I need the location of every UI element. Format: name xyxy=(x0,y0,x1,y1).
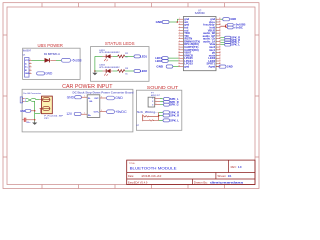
svg-text:IN-: IN- xyxy=(88,98,91,100)
car connector pins xyxy=(23,98,25,100)
svg-text:dimicmandana: dimicmandana xyxy=(210,181,244,185)
IC U2 body xyxy=(183,17,216,71)
car connector body xyxy=(20,97,22,103)
svg-text:2: 2 xyxy=(84,113,85,115)
net flag GND (buck out) xyxy=(107,96,115,100)
svg-text:WTL-RGB-0302URC: WTL-RGB-0302URC xyxy=(99,52,120,54)
wires X crossing xyxy=(26,98,28,100)
svg-text:+5vDC: +5vDC xyxy=(234,26,243,29)
fuse pack PR1 xyxy=(42,96,53,114)
wire LED2 to R2 xyxy=(110,70,112,72)
net flag +5vUSB (USB) xyxy=(61,58,70,62)
svg-text:LED2: LED2 xyxy=(140,69,147,73)
wire GND flag to buck pin 1 xyxy=(81,96,87,98)
speaker net flags xyxy=(220,37,224,39)
svg-text:GND: GND xyxy=(67,95,75,99)
title block row dividers xyxy=(127,172,255,174)
svg-text:1.0: 1.0 xyxy=(238,165,242,169)
svg-text:3: 3 xyxy=(101,96,102,98)
svg-text:1/1: 1/1 xyxy=(228,174,232,178)
svg-text:SPK_L: SPK_L xyxy=(231,43,240,47)
IC U2 right pins xyxy=(216,18,220,20)
wire 12V flag to buck pin 2 xyxy=(81,113,87,115)
svg-text:21: 21 xyxy=(219,60,221,62)
wires audio to flags xyxy=(160,97,164,100)
LED2 xyxy=(105,69,107,73)
wire GND to U2 pins 1-2 xyxy=(169,21,177,23)
audio connector body xyxy=(148,97,155,107)
svg-text:25: 25 xyxy=(219,49,221,51)
svg-text:MiniUSB-4F: MiniUSB-4F xyxy=(23,49,31,52)
frame column ticks top xyxy=(41,3,43,7)
svg-text:D1 BZT52C-A: D1 BZT52C-A xyxy=(44,53,60,56)
wire X to fuse xyxy=(32,98,36,100)
wire diode to +5vUSB flag xyxy=(50,59,56,61)
svg-text:BLUETOOTH MODULE: BLUETOOTH MODULE xyxy=(130,165,177,170)
net flag GND (U2 bottom-right) xyxy=(219,65,226,68)
junction dot bus xyxy=(94,70,96,72)
svg-text:28: 28 xyxy=(219,40,221,42)
ground symbol car xyxy=(32,123,37,125)
svg-text:GND: GND xyxy=(115,96,123,100)
svg-text:1: 1 xyxy=(152,98,153,100)
svg-text:12: 12 xyxy=(178,49,180,51)
jumper part body xyxy=(142,115,144,122)
svg-text:GND: GND xyxy=(156,65,164,69)
section box UBS POWER xyxy=(23,48,81,79)
wire R1 to flag xyxy=(125,55,134,57)
title block column dividers xyxy=(228,160,230,172)
net flags sound out bottom xyxy=(163,111,170,114)
svg-text:35: 35 xyxy=(219,21,221,23)
svg-text:2: 2 xyxy=(30,62,31,64)
audio connector pins xyxy=(155,97,160,99)
svg-text:32: 32 xyxy=(219,29,221,31)
sheet inner border xyxy=(7,7,255,185)
frame row ticks right xyxy=(255,34,259,36)
svg-text:SPK_R: SPK_R xyxy=(170,114,180,118)
wire LED1 to R1 xyxy=(110,55,112,57)
svg-text:4: 4 xyxy=(30,69,31,71)
wire GND to U2 bottom-left xyxy=(173,66,179,68)
svg-text:2: 2 xyxy=(25,101,26,103)
svg-text:3: 3 xyxy=(30,66,31,68)
IC U2 left pins xyxy=(179,18,184,20)
svg-text:16: 16 xyxy=(178,60,180,62)
svg-text:WTL-RGB-0302URC: WTL-RGB-0302URC xyxy=(99,67,120,69)
svg-text:1: 1 xyxy=(30,59,31,61)
svg-text:5: 5 xyxy=(30,72,31,74)
net flag GND (U2 top-right) xyxy=(223,18,230,21)
svg-text:18: 18 xyxy=(178,65,180,67)
svg-text:OUT+: OUT+ xyxy=(94,111,100,113)
net flag LED2 (status) xyxy=(134,70,140,73)
wire gnd bus vertical xyxy=(32,100,35,102)
capacitor C1 xyxy=(22,119,24,121)
wire LED1 to U2 xyxy=(168,57,178,59)
svg-text:GND: GND xyxy=(25,73,30,75)
svg-text:24: 24 xyxy=(219,51,221,53)
net flag GND (USB) xyxy=(37,72,45,75)
LED1 xyxy=(105,55,107,59)
wire fuse return xyxy=(35,112,41,114)
svg-text:GND: GND xyxy=(230,17,236,21)
svg-text:100n: 100n xyxy=(26,122,31,124)
connector U1 pins xyxy=(29,59,32,61)
svg-text:LED2: LED2 xyxy=(155,59,162,63)
svg-text:+5vUSB: +5vUSB xyxy=(71,59,82,63)
gnd bus wire xyxy=(94,56,96,71)
svg-text:PR?: PR? xyxy=(44,118,49,120)
net flag +5vDC (buck out) xyxy=(107,110,115,114)
diode D1 xyxy=(45,58,50,62)
svg-text:13: 13 xyxy=(178,51,180,53)
svg-text:STATUS LEDS: STATUS LEDS xyxy=(105,41,135,46)
net flag +5vUSB (U2) xyxy=(227,23,233,26)
svg-text:D-: D- xyxy=(25,63,27,65)
section box CAR POWER INPUT xyxy=(22,89,133,132)
svg-text:33: 33 xyxy=(219,26,221,28)
svg-text:2018-04-22: 2018-04-22 xyxy=(141,174,162,178)
svg-text:Drawn By:: Drawn By: xyxy=(194,182,208,185)
svg-text:VCC: VCC xyxy=(25,60,30,62)
wire U2 to GND bottom-right xyxy=(216,66,219,68)
svg-text:SAB009: SAB009 xyxy=(195,12,206,15)
svg-text:34: 34 xyxy=(219,24,221,26)
svg-text:OUT-: OUT- xyxy=(94,98,99,100)
svg-text:REV:: REV: xyxy=(231,165,237,169)
net flag +5vDC (U2) xyxy=(227,26,233,29)
connector U1 body xyxy=(25,58,29,78)
wire bus to LED2 xyxy=(95,70,103,72)
svg-text:1: 1 xyxy=(84,96,85,98)
svg-text:14: 14 xyxy=(178,54,180,56)
svg-text:31: 31 xyxy=(219,32,221,34)
svg-text:DC Buck Step-Down Power Conver: DC Buck Step-Down Power Converter Board xyxy=(73,91,134,95)
svg-text:GND: GND xyxy=(227,65,233,69)
buck board right pins xyxy=(100,97,107,99)
svg-text:UBS POWER: UBS POWER xyxy=(38,43,64,48)
title block outline xyxy=(127,160,255,184)
fuse pin stubs xyxy=(39,99,41,101)
svg-text:3: 3 xyxy=(152,104,153,106)
wire U2 VBAT to power flags xyxy=(220,25,225,27)
wire U2 to GND top-right xyxy=(220,18,222,20)
svg-text:+5vDC: +5vDC xyxy=(115,110,127,114)
svg-text:Sheet:: Sheet: xyxy=(217,174,226,178)
svg-text:LED1: LED1 xyxy=(140,55,147,59)
svg-text:Date:: Date: xyxy=(128,174,134,178)
svg-text:12V: 12V xyxy=(66,112,73,116)
svg-text:gnd: gnd xyxy=(184,65,189,69)
section box SOUND OUT xyxy=(136,90,181,130)
svg-text:SPK_L: SPK_L xyxy=(170,118,179,122)
wire bus sound out xyxy=(158,112,160,120)
svg-text:SOUND OUT: SOUND OUT xyxy=(147,85,179,90)
svg-text:23: 23 xyxy=(219,54,221,56)
svg-text:26: 26 xyxy=(219,46,221,48)
resistor R1 xyxy=(118,55,125,58)
section box STATUS LEDS xyxy=(91,47,150,82)
frame column ticks bottom xyxy=(41,185,43,189)
svg-text:Car 2A Connector: Car 2A Connector xyxy=(23,92,41,95)
svg-text:17: 17 xyxy=(178,63,180,65)
svg-text:2: 2 xyxy=(152,101,153,103)
frame row ticks left xyxy=(3,34,7,36)
ground symbol status leds xyxy=(92,73,97,75)
net flags audio out xyxy=(164,98,170,101)
wire bus to LED1 xyxy=(95,55,103,57)
svg-text:GND: GND xyxy=(45,72,53,76)
svg-text:10: 10 xyxy=(178,43,180,45)
wire R2 to flag xyxy=(125,70,134,72)
jumper squiggle 1 xyxy=(143,116,159,117)
svg-text:15: 15 xyxy=(178,57,180,59)
net flag LED1 (status) xyxy=(134,55,140,58)
svg-text:20: 20 xyxy=(219,63,221,65)
svg-text:Sch_Wiring...: Sch_Wiring... xyxy=(137,111,158,114)
svg-text:SPK_G: SPK_G xyxy=(170,103,179,107)
svg-text:AUDIO OUT: AUDIO OUT xyxy=(151,94,160,97)
buck board U3 xyxy=(87,95,100,118)
svg-text:30: 30 xyxy=(219,35,221,37)
wire LED2 to U2 xyxy=(168,60,178,62)
sheet outer border xyxy=(3,3,259,189)
svg-text:4: 4 xyxy=(101,110,102,112)
svg-text:Agnd: Agnd xyxy=(208,65,215,69)
svg-text:22: 22 xyxy=(219,57,221,59)
svg-text:11: 11 xyxy=(179,46,181,48)
wires bus to flags xyxy=(159,111,163,113)
resistor R2 xyxy=(118,70,125,73)
wire USB to diode D1 xyxy=(32,59,45,61)
svg-text:EasyEDA V5.4.9: EasyEDA V5.4.9 xyxy=(128,180,148,184)
jumper squiggle 2 xyxy=(143,120,159,121)
